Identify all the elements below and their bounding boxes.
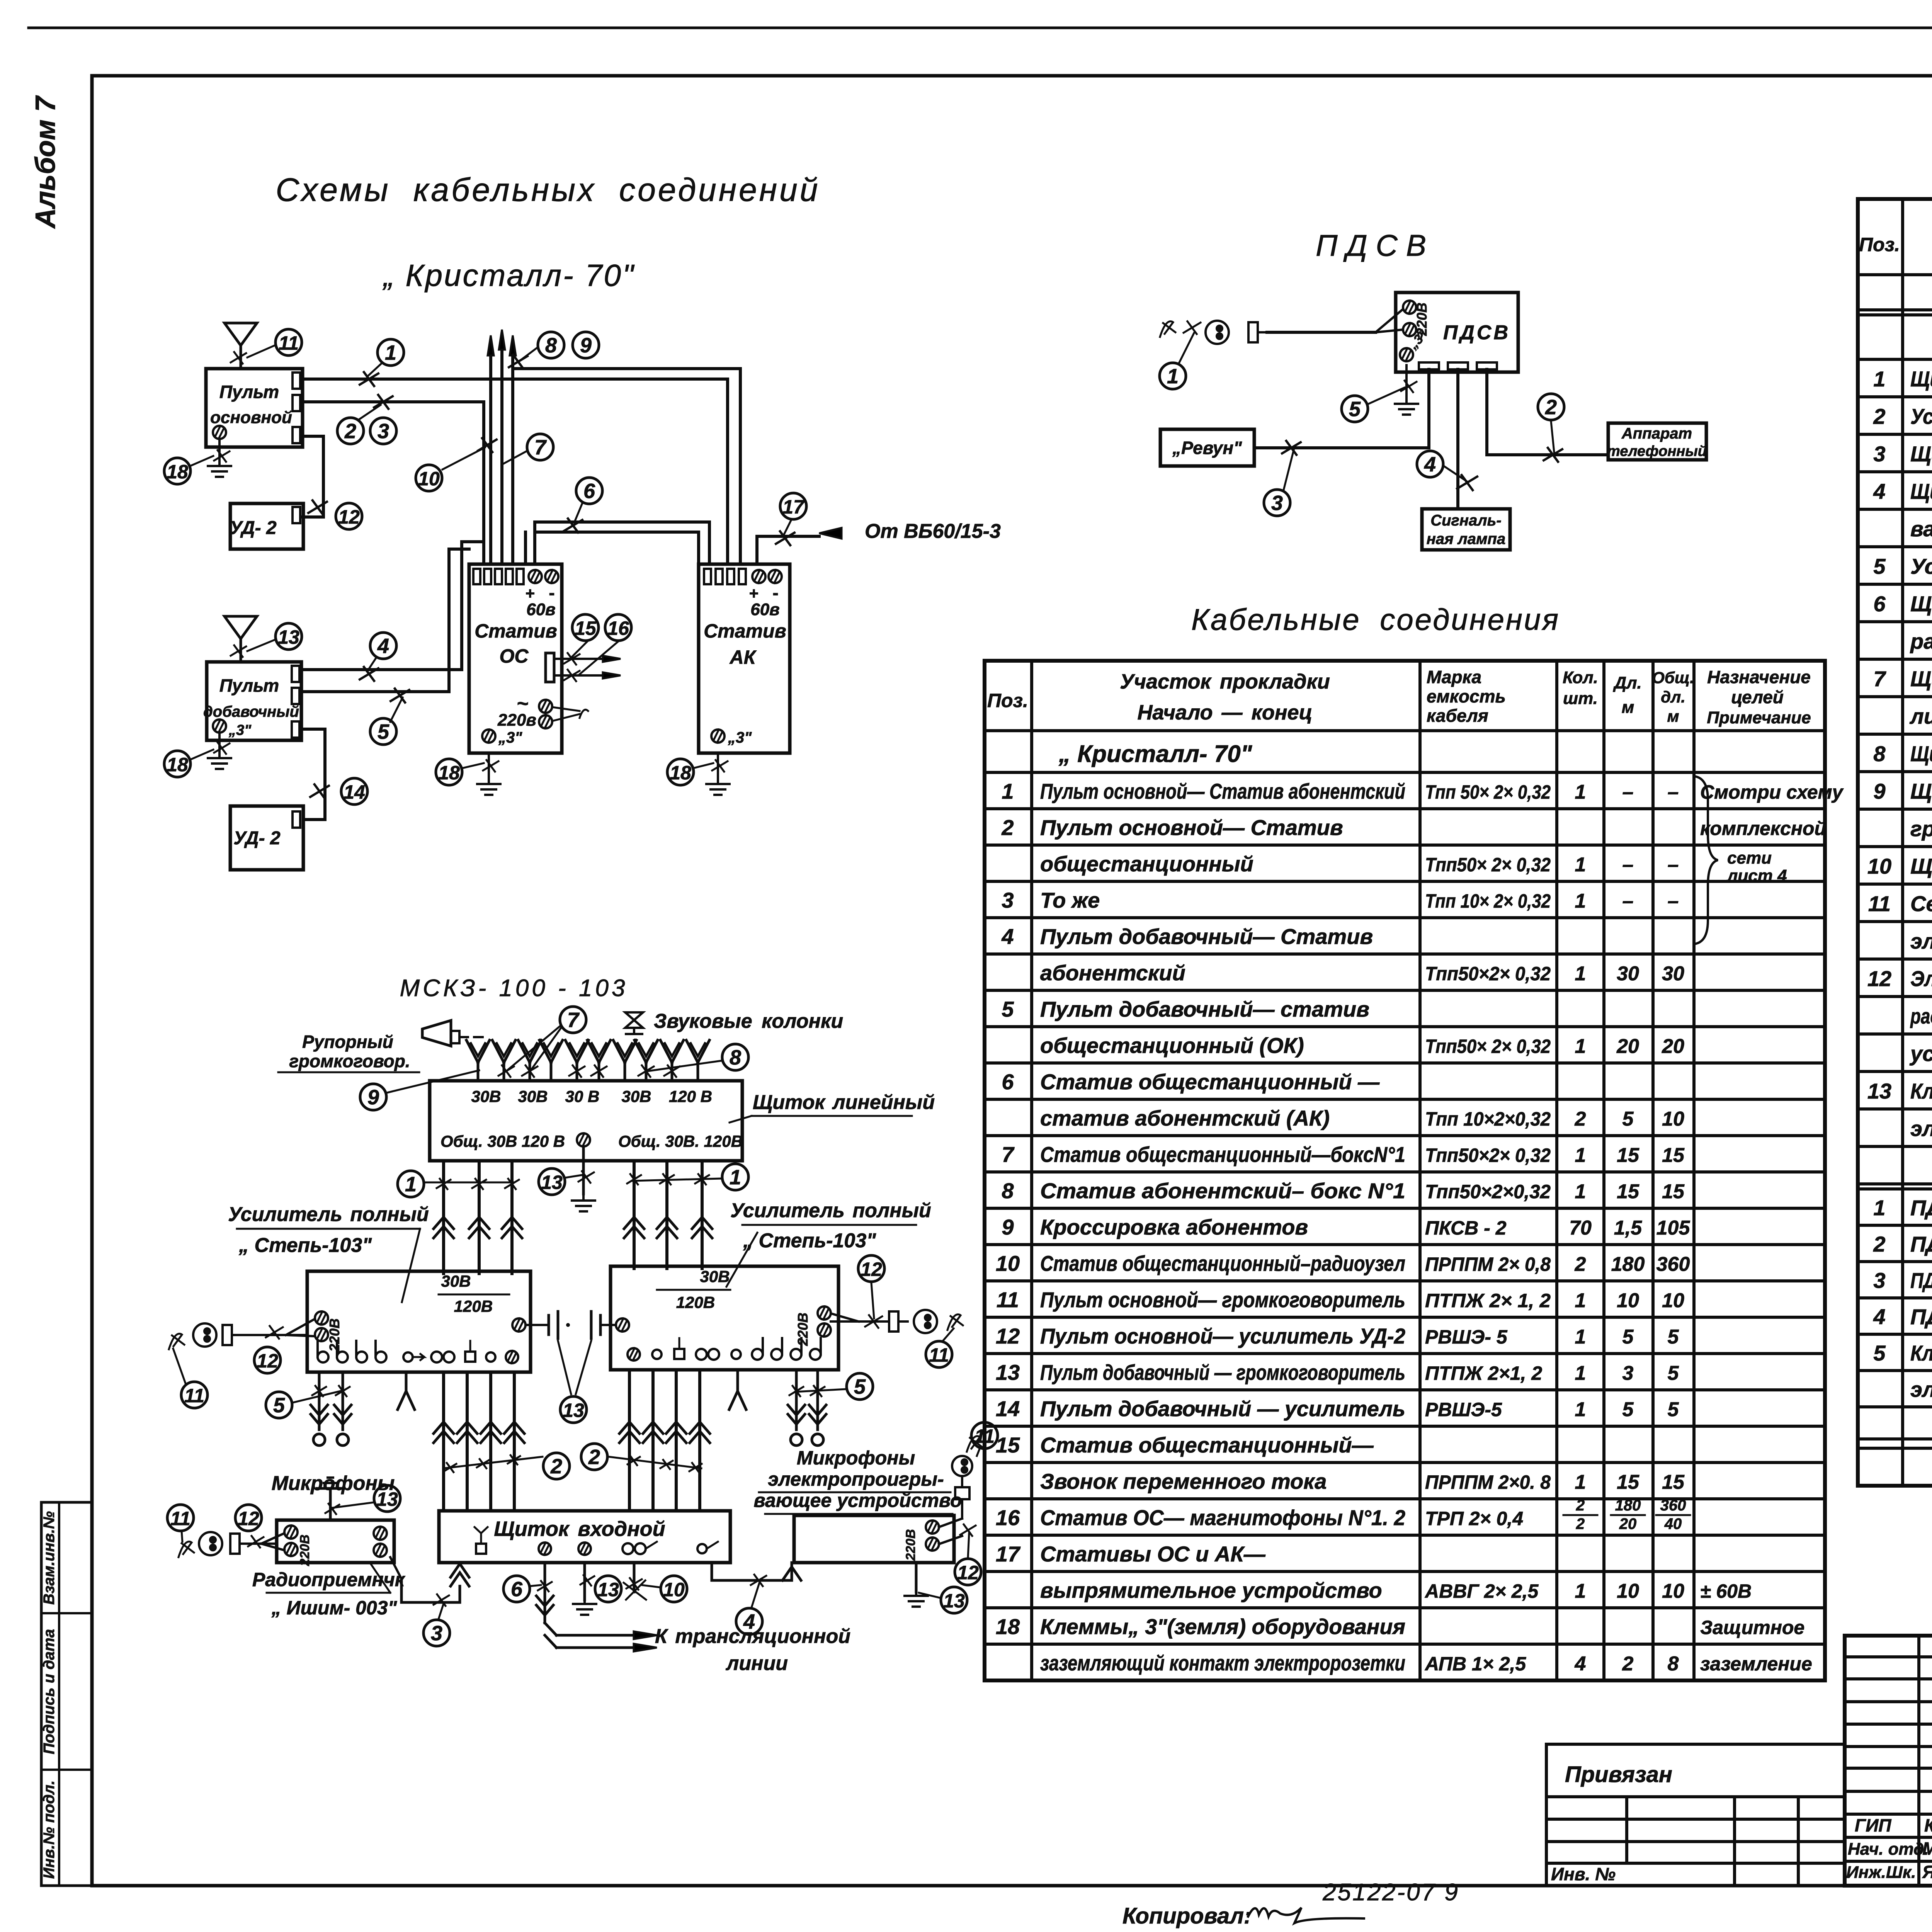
svg-text:30В: 30В: [700, 1267, 730, 1286]
svg-text:5: 5: [1668, 1398, 1679, 1421]
svg-text:30В: 30В: [621, 1087, 651, 1105]
svg-text:12: 12: [957, 1562, 979, 1583]
svg-text:линии: линии: [725, 1652, 788, 1675]
svg-text:7: 7: [534, 436, 547, 459]
svg-text:Пульт добавочный— статив: Пульт добавочный— статив: [1040, 997, 1369, 1021]
svg-text:12: 12: [257, 1350, 278, 1372]
svg-text:Щиток входной —электропроигры-: Щиток входной —электропроигры-: [1910, 479, 1932, 503]
svg-text:105: 105: [1656, 1217, 1690, 1239]
terminal З of main console: [213, 426, 226, 439]
node label circle 12: [336, 503, 362, 529]
svg-text:ПТПЖ 2×1, 2: ПТПЖ 2×1, 2: [1425, 1362, 1542, 1384]
svg-text:1: 1: [1873, 1196, 1885, 1220]
svg-text:18: 18: [167, 461, 188, 483]
svg-text:Защитное: Защитное: [1700, 1617, 1804, 1638]
svg-text:Пульт основной— Статив: Пульт основной— Статив: [1040, 815, 1343, 840]
svg-text:20: 20: [1619, 1515, 1637, 1532]
svg-text:1: 1: [1575, 1471, 1586, 1493]
svg-text:2: 2: [1545, 396, 1557, 419]
svg-text:3: 3: [378, 420, 389, 443]
svg-text:8: 8: [1668, 1653, 1679, 1675]
svg-text:60в: 60в: [526, 600, 556, 619]
svg-text:РВШЭ-5: РВШЭ-5: [1425, 1399, 1502, 1420]
svg-text:Коростелев: Коростелев: [1924, 1815, 1932, 1835]
title block: [1845, 1636, 1932, 1886]
ground 13 under line panel: [572, 1146, 595, 1211]
node label circle 18: [164, 751, 190, 777]
leader wire: [293, 1390, 344, 1403]
leader wire: [1551, 421, 1554, 452]
svg-text:15: 15: [1662, 1180, 1685, 1203]
svg-text:+: +: [749, 584, 759, 602]
svg-text:Якушева: Якушева: [1922, 1862, 1932, 1882]
svg-text:11: 11: [1868, 891, 1891, 916]
svg-text:4: 4: [1873, 1304, 1885, 1329]
svg-text:13: 13: [541, 1172, 563, 1193]
leader wire: [333, 1502, 374, 1508]
svg-text:1: 1: [730, 1166, 741, 1189]
svg-text:радиоприемник, электропроигрыв: радиоприемник, электропроигрывающее: [1910, 1004, 1932, 1028]
svg-text:ПРППМ 2×0. 8: ПРППМ 2×0. 8: [1425, 1471, 1551, 1493]
svg-text:1: 1: [385, 341, 396, 364]
svg-text:громкоговорители: громкоговорители: [1910, 816, 1932, 841]
leader wire: [1179, 333, 1194, 362]
svg-text:ная лампа: ная лампа: [1427, 531, 1505, 548]
line panel to amplifier wires: [434, 1161, 712, 1274]
svg-text:40: 40: [1664, 1515, 1682, 1532]
svg-text:АВВГ 2× 2,5: АВВГ 2× 2,5: [1424, 1580, 1539, 1602]
svg-text:10: 10: [1662, 1108, 1684, 1130]
svg-text:2: 2: [344, 420, 356, 443]
svg-text:Дл.: Дл.: [1612, 673, 1641, 692]
ground of PDSV: [1395, 365, 1418, 415]
svg-text:емкость: емкость: [1427, 686, 1506, 706]
right cable table grid: [1858, 199, 1932, 1486]
svg-text:ОС: ОС: [500, 645, 529, 667]
node label circle 13: [539, 1168, 565, 1195]
mains lead-in receiver: [179, 1532, 284, 1557]
svg-text:1: 1: [1575, 1580, 1586, 1602]
svg-text:7: 7: [567, 1009, 580, 1032]
central cable table grid: [985, 661, 1825, 1680]
svg-text:12: 12: [1867, 966, 1891, 991]
node label circle 8: [722, 1044, 748, 1070]
svg-text:1: 1: [1575, 854, 1586, 876]
svg-text:Статив общестанционный—боксN°1: Статив общестанционный—боксN°1: [1040, 1142, 1405, 1167]
leader wire: [968, 1533, 969, 1558]
svg-text:10: 10: [1867, 854, 1891, 878]
svg-text:–: –: [1622, 781, 1634, 803]
node label circle 8: [538, 332, 564, 358]
stray fork amp1: [398, 1372, 415, 1410]
svg-text:м: м: [1667, 707, 1679, 725]
svg-text:5: 5: [1873, 1341, 1886, 1365]
svg-text:13: 13: [1867, 1079, 1891, 1103]
svg-text:3: 3: [1271, 492, 1283, 515]
svg-text:ПД СВ—вызывное устройство„Реву: ПД СВ—вызывное устройство„Ревун": [1910, 1268, 1932, 1293]
node label circle 18: [436, 759, 462, 785]
svg-text:Усилитель полный: Усилитель полный: [730, 1199, 931, 1222]
svg-text:ПДСВ—телефонный аппарат: ПДСВ—телефонный аппарат: [1910, 1232, 1932, 1256]
node label circle 4: [1417, 451, 1443, 477]
svg-text:Сеть переменного тока—: Сеть переменного тока—: [1910, 891, 1932, 916]
leader wire: [247, 639, 276, 651]
svg-text:1,5: 1,5: [1614, 1217, 1642, 1239]
leader wire: [1369, 388, 1405, 404]
svg-text:17: 17: [782, 496, 805, 518]
svg-text:7: 7: [1873, 667, 1886, 691]
svg-text:„3": „3": [228, 722, 252, 738]
svg-text:ПДСВ: ПДСВ: [1316, 228, 1435, 262]
leader wire: [442, 447, 485, 469]
svg-text:электророзетка: электророзетка: [1910, 929, 1932, 953]
svg-text:Схемы кабельных соединений: Схемы кабельных соединений: [276, 172, 820, 208]
box Статив АК: [699, 564, 790, 753]
svg-text:добавочный: добавочный: [203, 703, 299, 720]
svg-text:10: 10: [1617, 1580, 1639, 1602]
svg-text:линии 1- 4: линии 1- 4: [1909, 704, 1932, 728]
svg-text:МСКЗ- 100 - 103: МСКЗ- 100 - 103: [400, 975, 628, 1002]
leader wire: [871, 1283, 874, 1318]
mains lead-in amp2: [831, 1310, 963, 1333]
node label circle 11: [926, 1341, 952, 1367]
wire 2: telephone: [1487, 369, 1608, 455]
node label circle 3: [370, 418, 396, 444]
node label circle 2: [543, 1453, 570, 1479]
svg-text:12: 12: [338, 506, 360, 528]
svg-text:Инв. №: Инв. №: [1551, 1864, 1616, 1884]
svg-text:13: 13: [943, 1590, 965, 1612]
node label circle 12: [858, 1255, 884, 1282]
svg-text:2: 2: [1873, 404, 1885, 429]
svg-text:ПКСВ - 2: ПКСВ - 2: [1425, 1217, 1507, 1239]
box Щиток входной: [439, 1511, 730, 1563]
svg-text:АК: АК: [729, 646, 757, 668]
svg-text:9: 9: [367, 1086, 379, 1109]
svg-text:Кабельные соединения: Кабельные соединения: [1191, 602, 1560, 636]
svg-text:Щиток входной — магнитофон: Щиток входной — магнитофон: [1910, 854, 1932, 878]
node label circle 5: [266, 1392, 292, 1418]
leader wire: [359, 405, 381, 419]
svg-text:10: 10: [1662, 1580, 1684, 1602]
svg-text:4: 4: [1001, 924, 1014, 949]
amp1 to input panel wires: [434, 1372, 524, 1511]
svg-text:5: 5: [1873, 554, 1886, 578]
box Радиоприемник: [277, 1520, 394, 1566]
wire 6: stativ OC to stativ AK: [526, 522, 709, 564]
svg-text:16: 16: [607, 617, 629, 639]
amp2 to input panel wires: [619, 1370, 710, 1511]
leader wire: [1443, 466, 1466, 481]
svg-text:220В: 220В: [795, 1313, 811, 1346]
node label circle 18: [667, 759, 694, 785]
svg-text:электророзетки: электророзетки: [1910, 1377, 1932, 1401]
sidebar stamp boxes: [41, 1502, 92, 1886]
svg-text:Пульт основной— громкоговорите: Пульт основной— громкоговоритель: [1040, 1287, 1405, 1312]
svg-text:1: 1: [1575, 1326, 1586, 1348]
svg-text:„ Степь-103": „ Степь-103": [238, 1234, 372, 1257]
svg-text:15: 15: [575, 617, 597, 639]
svg-text:9: 9: [1873, 779, 1885, 803]
svg-text:Тпп 10×2×0,32: Тпп 10×2×0,32: [1425, 1108, 1551, 1130]
svg-text:Усилитель полный: Усилитель полный: [228, 1203, 429, 1226]
svg-text:Усилитель N°1, 2 — щиток входн: Усилитель N°1, 2 — щиток входной: [1910, 404, 1932, 429]
leader wire: [522, 348, 537, 359]
svg-text:1: 1: [1167, 365, 1179, 388]
svg-text:4: 4: [1873, 479, 1885, 503]
svg-text:Инв.№ подл.: Инв.№ подл.: [41, 1781, 58, 1879]
node label circle 11: [971, 1422, 998, 1449]
box Щиток линейный: [430, 1081, 743, 1161]
svg-text:220В: 220В: [327, 1318, 342, 1352]
svg-text:220В: 220В: [903, 1529, 918, 1561]
box Пульт добавочный: [203, 662, 301, 740]
svg-text:14: 14: [344, 781, 365, 803]
svg-text:30В: 30В: [441, 1272, 471, 1290]
svg-text:Статив общестанционный–радиоуз: Статив общестанционный–радиоузел: [1040, 1251, 1405, 1276]
svg-text:6: 6: [1873, 592, 1886, 616]
svg-text:5: 5: [1668, 1362, 1679, 1384]
svg-text:ПТПЖ 2× 1, 2: ПТПЖ 2× 1, 2: [1425, 1290, 1551, 1311]
svg-text:+: +: [526, 584, 535, 602]
svg-text:статив абонентский (АК): статив абонентский (АК): [1040, 1106, 1330, 1130]
node label circle 18: [164, 458, 190, 484]
leader wire: [367, 657, 377, 672]
capacitor link between amplifiers: [526, 1311, 616, 1338]
crossing leader 2: [444, 1457, 543, 1468]
svg-text:5: 5: [1622, 1326, 1634, 1348]
leader wire: [648, 1061, 722, 1071]
svg-text:–: –: [1668, 781, 1679, 803]
svg-text:1: 1: [1575, 1180, 1586, 1203]
leader wire: [572, 641, 587, 657]
svg-text:5: 5: [378, 720, 389, 743]
node label circle 13: [595, 1576, 621, 1602]
svg-text:18: 18: [996, 1614, 1020, 1639]
svg-text:30: 30: [1662, 963, 1684, 985]
svg-text:Кол.: Кол.: [1563, 668, 1598, 687]
svg-text:телефонный: телефонный: [1607, 443, 1707, 459]
ground of additional console: [208, 733, 231, 769]
svg-text:Марка: Марка: [1427, 667, 1481, 687]
node label circle 15: [572, 614, 599, 641]
node label circle 13: [374, 1485, 400, 1512]
svg-text:Статив ОС— магнитофоны N°1. 2: Статив ОС— магнитофоны N°1. 2: [1040, 1505, 1405, 1530]
central table header: [987, 667, 1811, 727]
svg-text:Пульт: Пульт: [219, 675, 279, 696]
svg-text:2: 2: [550, 1455, 562, 1478]
node label circle 10: [661, 1576, 687, 1602]
svg-text:Щиток линейный — рупорные: Щиток линейный — рупорные: [1910, 779, 1932, 803]
wire 12: console to УД-2: [303, 436, 323, 517]
ground of stativ OC: [477, 753, 500, 795]
node label circle 1: [722, 1164, 748, 1190]
leader wire: [944, 1328, 954, 1340]
svg-text:„3": „3": [728, 729, 752, 746]
svg-text:Тпп50× 2× 0,32: Тпп50× 2× 0,32: [1425, 854, 1551, 876]
svg-text:6: 6: [511, 1578, 523, 1601]
box electric player supply: [794, 1515, 954, 1563]
svg-text:Пульт добавочный— Статив: Пульт добавочный— Статив: [1040, 924, 1373, 949]
svg-text:–: –: [1668, 890, 1679, 912]
svg-text:Статив: Статив: [704, 620, 786, 642]
node label circle 11: [276, 329, 302, 355]
svg-text:1: 1: [1575, 1362, 1586, 1384]
svg-text:3: 3: [1622, 1362, 1634, 1384]
svg-text:–: –: [1622, 854, 1634, 876]
svg-text:Общ. 30В. 120В: Общ. 30В. 120В: [618, 1132, 743, 1150]
svg-text:Тпп 10× 2× 0,32: Тпп 10× 2× 0,32: [1425, 890, 1551, 912]
wire 3: Ревун to PDSV: [1254, 369, 1429, 448]
svg-text:выпрямительное устройство: выпрямительное устройство: [1040, 1578, 1382, 1602]
svg-text:Усилители N°1, 2— микрофоны: Усилители N°1, 2— микрофоны: [1910, 554, 1932, 578]
antenna of additional console: [224, 616, 257, 662]
wire 4: input panel to player: [712, 1563, 801, 1580]
wire 14: additional console to УД-2: [301, 729, 325, 820]
svg-text:6: 6: [583, 480, 595, 503]
svg-text:13: 13: [597, 1579, 619, 1600]
svg-text:60в: 60в: [750, 600, 780, 619]
svg-text:Рупорный: Рупорный: [302, 1032, 393, 1052]
svg-text:Аппарат: Аппарат: [1621, 425, 1692, 442]
svg-text:электропроигры-: электропроигры-: [768, 1468, 944, 1490]
svg-text:15: 15: [1617, 1180, 1639, 1203]
leader wire: [387, 1070, 479, 1093]
svg-text:20: 20: [1662, 1035, 1684, 1058]
node label circle 6: [576, 478, 602, 504]
wire top link: [513, 369, 740, 564]
svg-text:1: 1: [1575, 781, 1586, 803]
leader wire: [529, 1585, 541, 1586]
box Ревун: [1160, 429, 1254, 466]
svg-text:25122-07 9: 25122-07 9: [1322, 1879, 1459, 1906]
svg-text:10: 10: [1617, 1289, 1639, 1312]
node label circle 7: [560, 1007, 586, 1033]
svg-text:радиотрансляционная сеть: радиотрансляционная сеть: [1910, 629, 1932, 653]
svg-text:заземляющий контакт электророз: заземляющий контакт электророзетки: [1040, 1651, 1405, 1675]
svg-text:13: 13: [996, 1360, 1020, 1384]
svg-text:Клеммы„ 3"(земля) оборудования: Клеммы„ 3"(земля) оборудования: [1040, 1614, 1405, 1639]
svg-text:–: –: [1622, 890, 1634, 912]
svg-text:5: 5: [1668, 1326, 1679, 1348]
svg-text:Малахов: Малахов: [1922, 1838, 1932, 1859]
leader wire: [508, 1026, 560, 1070]
node label circle 5: [847, 1373, 873, 1400]
svg-text:„Ревун": „Ревун": [1172, 438, 1242, 458]
svg-text:То же: То же: [1040, 888, 1100, 912]
node label circle 3: [423, 1620, 450, 1646]
svg-text:220в: 220в: [497, 711, 536, 730]
box amplifier 1: [307, 1271, 531, 1372]
box amplifier 2: [611, 1266, 838, 1370]
svg-text:2: 2: [1873, 1232, 1885, 1256]
leader wire: [182, 1531, 182, 1542]
svg-text:5: 5: [1622, 1108, 1634, 1130]
leader wire: [565, 1175, 584, 1178]
svg-text:Примечание: Примечание: [1707, 708, 1811, 727]
wire 4: [301, 542, 484, 670]
svg-text:1: 1: [1575, 963, 1586, 985]
node label circle 12: [955, 1559, 981, 1585]
svg-text:ГИП: ГИП: [1855, 1815, 1891, 1835]
svg-text:Сигналь-: Сигналь-: [1430, 512, 1502, 529]
leader wire: [190, 456, 213, 466]
loudspeaker forks on line panel: [466, 1040, 709, 1081]
svg-text:2: 2: [1576, 1515, 1585, 1532]
svg-text:2: 2: [588, 1446, 600, 1469]
leader wire: [190, 750, 213, 760]
svg-text:От ВБ60/15-3: От ВБ60/15-3: [865, 520, 1001, 543]
node label circle 2: [581, 1444, 607, 1470]
svg-text:Щиток линейный —усилительN°1,2: Щиток линейный —усилительN°1,2: [1910, 367, 1932, 391]
svg-text:4: 4: [1424, 453, 1436, 476]
svg-text:шт.: шт.: [1563, 689, 1598, 708]
node label circle 13: [560, 1396, 587, 1423]
svg-text:ПДСВ — сигнальная лампа: ПДСВ — сигнальная лампа: [1910, 1304, 1932, 1329]
node label circle 10: [416, 465, 442, 491]
leader wire: [439, 1604, 444, 1619]
svg-text:Щиток входной —радиоприемник: Щиток входной —радиоприемник: [1910, 442, 1932, 466]
svg-text:10: 10: [1662, 1289, 1684, 1312]
svg-text:Пульт: Пульт: [219, 382, 279, 402]
player mains plug: [939, 1436, 982, 1544]
svg-text:Статив общестанционный —: Статив общестанционный —: [1040, 1070, 1380, 1094]
svg-text:11: 11: [170, 1508, 190, 1529]
leader wire: [977, 1449, 980, 1456]
node label circle 13: [276, 623, 302, 650]
box УД-2: [230, 503, 303, 549]
svg-text:комплексной: комплексной: [1700, 818, 1826, 839]
svg-text:120В: 120В: [676, 1293, 715, 1311]
svg-text:3: 3: [1873, 442, 1885, 466]
svg-text:1: 1: [1575, 1035, 1586, 1058]
svg-text:Привязан: Привязан: [1565, 1762, 1672, 1787]
svg-text:Клемма„ 3"—заземляющий контакт: Клемма„ 3"—заземляющий контакт: [1910, 1079, 1932, 1103]
node label circle 12: [235, 1505, 262, 1531]
node label circle 9: [360, 1084, 386, 1110]
mains lead-in of PDSV: [1160, 309, 1403, 344]
ground of stativ AK: [706, 753, 730, 795]
svg-text:–: –: [1668, 854, 1679, 876]
svg-text:12: 12: [996, 1324, 1020, 1348]
svg-text:Копировал:: Копировал:: [1122, 1903, 1251, 1929]
svg-text:360: 360: [1656, 1253, 1690, 1276]
svg-text:Нач. отд.: Нач. отд.: [1848, 1840, 1929, 1859]
svg-text:целей: целей: [1731, 687, 1784, 707]
svg-text:18: 18: [167, 754, 188, 776]
svg-text:5: 5: [1349, 398, 1361, 421]
svg-text:17: 17: [996, 1542, 1021, 1566]
svg-text:Смотри схему: Смотри схему: [1700, 781, 1844, 803]
svg-text:Назначение: Назначение: [1707, 667, 1811, 687]
svg-text:13: 13: [376, 1488, 398, 1510]
attachment block: [1546, 1744, 1845, 1886]
svg-text:1: 1: [405, 1173, 417, 1196]
svg-text:4: 4: [1575, 1653, 1586, 1675]
node label circle 1: [1160, 363, 1186, 389]
svg-text:Поз.: Поз.: [987, 690, 1028, 711]
right table header: [1859, 215, 1932, 274]
svg-text:70: 70: [1569, 1217, 1592, 1239]
svg-text:Тпп50×2×0,32: Тпп50×2×0,32: [1425, 1181, 1551, 1202]
svg-text:Участок прокладки: Участок прокладки: [1120, 670, 1330, 693]
svg-text:„ Кристалл- 70": „ Кристалл- 70": [1058, 741, 1253, 767]
node label circle 13: [941, 1587, 967, 1613]
svg-text:Инж.Шк.: Инж.Шк.: [1846, 1863, 1916, 1882]
svg-text:Статив абонентский– бокс N°1: Статив абонентский– бокс N°1: [1040, 1179, 1405, 1203]
node label circle 5: [1342, 396, 1368, 422]
svg-text:3: 3: [431, 1622, 442, 1645]
